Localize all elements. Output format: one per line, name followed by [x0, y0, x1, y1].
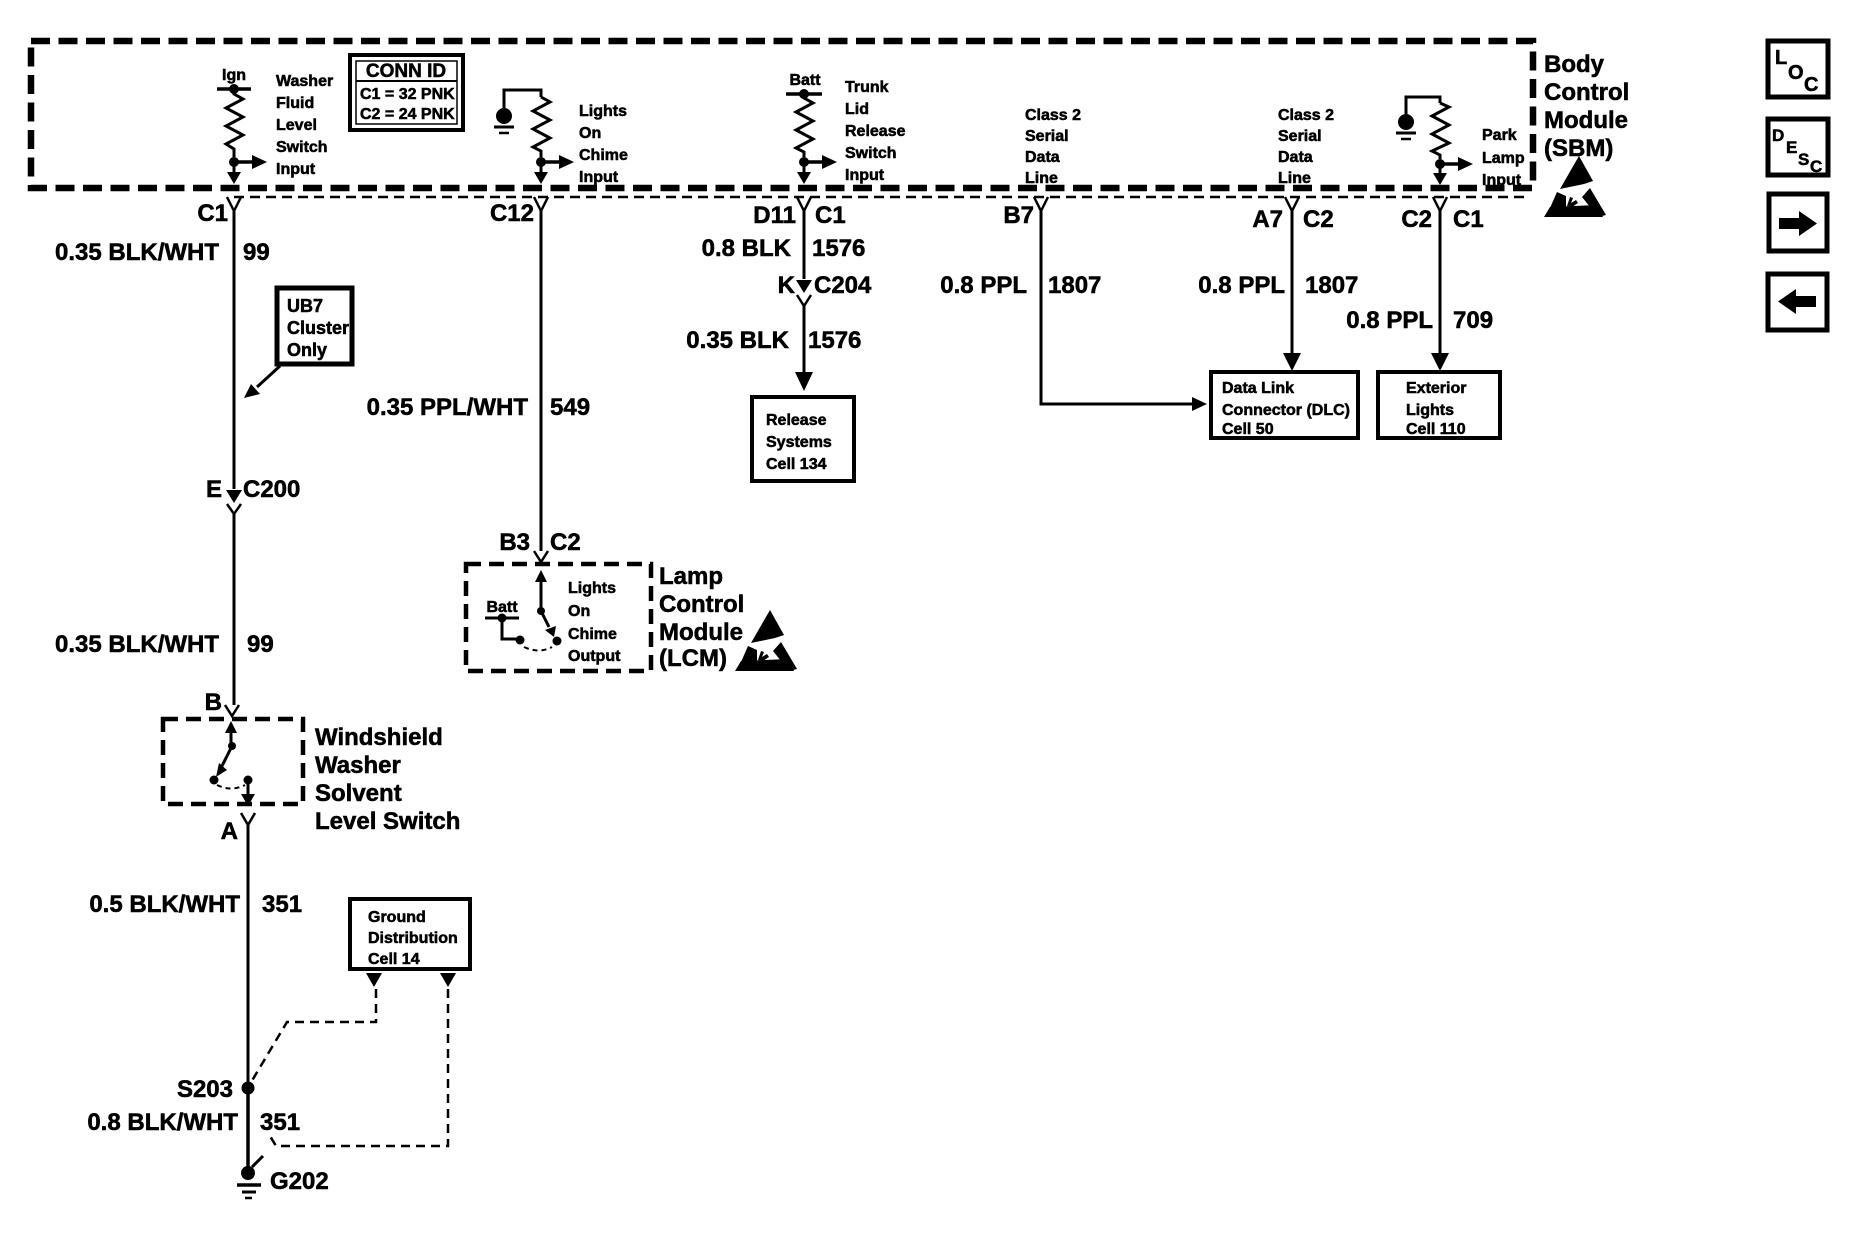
resistor (Trunk Lid Release Switch Input) — [796, 94, 813, 157]
wire 1576 segment (C204 to Release Systems) — [795, 306, 813, 391]
pin A7 C2 connector — [1252, 197, 1333, 233]
label 0.5 BLK/WHT 351 — [89, 891, 302, 918]
dashed reference route to G202 — [270, 989, 448, 1146]
svg-text:Exterior: Exterior — [1406, 380, 1466, 397]
svg-text:0.8 PPL: 0.8 PPL — [1198, 272, 1285, 299]
label 0.8 PPL 1807 (A7) — [1198, 272, 1358, 299]
node at chime resistor output — [536, 157, 546, 167]
svg-text:0.35 BLK/WHT: 0.35 BLK/WHT — [55, 631, 219, 658]
wire 1807 segment (A7 to DLC) — [1283, 211, 1301, 371]
svg-text:Class 2: Class 2 — [1278, 107, 1334, 124]
label 0.35 BLK/WHT 99 (lower) — [55, 631, 274, 658]
splice S203 — [177, 1076, 255, 1103]
Body Control Module (SBM) dashed outline — [31, 41, 1533, 188]
Lamp Control Module dashed box — [466, 564, 651, 671]
wire to pin C2 with down arrow — [1433, 164, 1447, 185]
svg-text:Lights: Lights — [1406, 402, 1454, 419]
wire 99 segment (BCM to C200) — [233, 211, 236, 489]
svg-text:1576: 1576 — [808, 327, 861, 354]
svg-text:Distribution: Distribution — [368, 930, 458, 947]
svg-text:Data: Data — [1278, 149, 1313, 166]
next-page arrow button — [1769, 194, 1827, 251]
svg-text:D11: D11 — [753, 202, 796, 229]
svg-text:C: C — [1804, 74, 1818, 96]
label Class 2 Serial Data Line (pin B7) — [1025, 107, 1081, 187]
svg-text:Park: Park — [1482, 127, 1517, 144]
svg-text:Chime: Chime — [579, 147, 628, 164]
ground distribution pointer triangle right — [440, 973, 456, 987]
svg-text:B7: B7 — [1003, 202, 1034, 229]
svg-text:Class 2: Class 2 — [1025, 107, 1081, 124]
BCM connector face dashed line — [234, 196, 1530, 199]
pin D11 C1 connector — [753, 197, 845, 229]
terminal Batt (trunk lid release) — [786, 72, 822, 99]
resistor (Lights On Chime Input) — [533, 97, 550, 157]
internal arrow right (trunk lid input) — [804, 155, 837, 169]
Windshield Washer Solvent Level Switch dashed box — [163, 719, 303, 804]
LCM terminal Batt — [485, 599, 525, 645]
svg-text:1576: 1576 — [812, 235, 865, 262]
pin B3 C2 of LCM — [499, 529, 580, 562]
svg-text:Data Link: Data Link — [1222, 380, 1294, 397]
svg-text:A7: A7 — [1252, 206, 1283, 233]
wire to pin C12 with down arrow — [534, 162, 548, 184]
wire 351 segment (switch to S203) — [247, 825, 250, 1087]
svg-text:Connector (DLC): Connector (DLC) — [1222, 402, 1350, 419]
switch movable arm — [210, 746, 233, 785]
svg-text:Switch: Switch — [845, 145, 897, 162]
node at trunk resistor output — [799, 157, 809, 167]
UB7 pointer arrow — [244, 366, 280, 398]
terminal Ign — [217, 67, 251, 94]
svg-text:Ign: Ign — [222, 67, 246, 84]
svg-text:C1: C1 — [1453, 206, 1484, 233]
ESD warning symbol pair (LCM) — [735, 610, 797, 671]
label Lights On Chime Output — [568, 580, 621, 665]
svg-text:C1 = 32 PNK: C1 = 32 PNK — [360, 86, 455, 103]
svg-text:Lid: Lid — [845, 101, 869, 118]
svg-text:(LCM): (LCM) — [659, 645, 727, 672]
svg-text:Module: Module — [1544, 107, 1628, 134]
svg-text:S: S — [1798, 150, 1809, 169]
Ground Distribution Cell 14 note box — [350, 899, 470, 969]
svg-text:On: On — [568, 603, 590, 620]
svg-text:Fluid: Fluid — [276, 95, 314, 112]
label Lights On Chime Input — [579, 103, 628, 186]
svg-text:Lights: Lights — [579, 103, 627, 120]
label Park Lamp Input — [1482, 127, 1525, 189]
svg-text:Input: Input — [845, 167, 885, 184]
previous-page arrow button — [1768, 274, 1827, 330]
svg-text:Module: Module — [659, 619, 743, 646]
svg-text:Release: Release — [766, 412, 827, 429]
svg-text:B: B — [205, 689, 222, 716]
svg-text:Trunk: Trunk — [845, 79, 889, 96]
svg-text:E: E — [206, 476, 222, 503]
svg-text:E: E — [1786, 138, 1797, 157]
LCM switch movable arm — [541, 611, 562, 646]
switch contact to A with down arrow — [241, 776, 255, 807]
svg-text:99: 99 — [243, 239, 270, 266]
label Class 2 Serial Data Line (pin A7) — [1278, 107, 1334, 187]
svg-text:C: C — [1810, 157, 1822, 176]
svg-text:D: D — [1772, 126, 1784, 145]
DESC button — [1768, 119, 1828, 176]
wire 1807 segment (B7 to DLC) — [1041, 211, 1207, 411]
svg-text:99: 99 — [247, 631, 274, 658]
CONN ID table — [350, 55, 463, 130]
svg-text:Ground: Ground — [368, 909, 426, 926]
label 0.35 PPL/WHT 549 — [367, 394, 590, 421]
svg-text:Lamp: Lamp — [659, 563, 723, 590]
ground symbol (park lamp pull-down) — [1396, 97, 1440, 139]
svg-text:C12: C12 — [490, 200, 534, 227]
wire to pin D11 with down arrow — [797, 162, 811, 184]
pin C2 C1 connector — [1401, 197, 1483, 233]
svg-text:0.8 PPL: 0.8 PPL — [1346, 307, 1433, 334]
ground G202 — [237, 1088, 329, 1198]
node at park lamp resistor output — [1435, 159, 1445, 169]
svg-text:1807: 1807 — [1048, 272, 1101, 299]
svg-text:C2: C2 — [1303, 206, 1334, 233]
svg-text:Control: Control — [659, 591, 744, 618]
label 0.8 PPL 709 — [1346, 307, 1493, 334]
svg-text:UB7: UB7 — [287, 296, 323, 316]
svg-text:Input: Input — [276, 161, 316, 178]
svg-text:549: 549 — [550, 394, 590, 421]
LOC button — [1768, 41, 1828, 97]
label 0.35 BLK/WHT 99 — [55, 239, 270, 266]
svg-text:CONN ID: CONN ID — [366, 61, 446, 82]
LCM output contact arrow to B3 — [535, 570, 547, 615]
svg-text:Control: Control — [1544, 79, 1629, 106]
pin B7 connector — [1003, 197, 1048, 229]
switch contact arrow to B — [225, 721, 237, 750]
svg-text:Level Switch: Level Switch — [315, 808, 460, 835]
title Body Control Module (SBM) — [1544, 51, 1629, 162]
svg-text:351: 351 — [262, 891, 302, 918]
ground symbol (lights on chime pull-down) — [494, 90, 541, 133]
label 0.8 PPL 1807 (B7) — [940, 272, 1101, 299]
svg-text:Solvent: Solvent — [315, 780, 402, 807]
svg-text:Batt: Batt — [486, 599, 518, 616]
svg-text:Lamp: Lamp — [1482, 150, 1525, 167]
svg-text:351: 351 — [260, 1109, 300, 1136]
svg-text:Cell 50: Cell 50 — [1222, 421, 1274, 438]
UB7 Cluster Only note box — [277, 288, 352, 364]
ground distribution pointer triangle left — [366, 973, 382, 987]
label 0.8 BLK 1576 — [702, 235, 866, 262]
svg-text:Level: Level — [276, 117, 317, 134]
wire 99 segment (C200 to switch) — [233, 514, 236, 705]
svg-text:G202: G202 — [270, 1168, 329, 1195]
label Washer Fluid Level Switch Input — [276, 73, 333, 178]
label 0.35 BLK 1576 — [686, 327, 861, 354]
svg-text:C200: C200 — [243, 476, 300, 503]
svg-text:Input: Input — [1482, 172, 1522, 189]
svg-text:Line: Line — [1025, 170, 1058, 187]
label Windshield Washer Solvent Level Switch — [315, 724, 460, 835]
svg-text:709: 709 — [1453, 307, 1493, 334]
inline connector C204 pin K — [778, 272, 872, 306]
svg-text:Chime: Chime — [568, 626, 617, 643]
svg-text:Cluster: Cluster — [287, 318, 349, 338]
svg-text:On: On — [579, 125, 601, 142]
label Trunk Lid Release Switch Input — [845, 79, 906, 184]
wire to pin C1 with down arrow — [227, 162, 241, 184]
svg-text:Lights: Lights — [568, 580, 616, 597]
inline connector C200 pin E — [206, 476, 300, 514]
svg-text:S203: S203 — [177, 1076, 233, 1103]
svg-text:C2: C2 — [1401, 206, 1432, 233]
resistor (Washer Fluid Level Switch Input) — [226, 89, 243, 157]
svg-text:C1: C1 — [197, 200, 228, 227]
svg-text:Cell 134: Cell 134 — [766, 456, 827, 473]
svg-text:Systems: Systems — [766, 434, 832, 451]
svg-text:0.8 BLK/WHT: 0.8 BLK/WHT — [87, 1109, 238, 1136]
svg-text:0.35 BLK: 0.35 BLK — [686, 327, 789, 354]
Data Link Connector (DLC) Cell 50 box — [1211, 372, 1358, 438]
wire 709 segment (C2 to Exterior Lights) — [1431, 211, 1449, 371]
dashed reference route to S203 — [250, 989, 376, 1084]
svg-text:L: L — [1775, 47, 1787, 69]
svg-text:Release: Release — [845, 123, 906, 140]
svg-text:Output: Output — [568, 648, 621, 665]
svg-text:1807: 1807 — [1305, 272, 1358, 299]
wire 549 segment — [540, 211, 543, 551]
switch travel dashed arc — [217, 785, 245, 789]
svg-text:Line: Line — [1278, 170, 1311, 187]
LCM switch travel dashed arc — [524, 647, 552, 651]
pin C12 connector — [490, 197, 548, 227]
resistor (Park Lamp Input) — [1432, 103, 1449, 159]
svg-text:O: O — [1788, 62, 1804, 84]
svg-text:Cell 110: Cell 110 — [1406, 421, 1466, 438]
svg-text:0.8 BLK: 0.8 BLK — [702, 235, 792, 262]
pin B of washer switch — [205, 689, 239, 716]
label 0.8 BLK/WHT 351 — [87, 1109, 300, 1136]
svg-text:Data: Data — [1025, 149, 1060, 166]
svg-text:Washer: Washer — [315, 752, 401, 779]
svg-text:Cell 14: Cell 14 — [368, 951, 420, 968]
svg-text:C2: C2 — [550, 529, 581, 556]
svg-text:Only: Only — [287, 340, 327, 360]
svg-text:Serial: Serial — [1278, 128, 1322, 145]
ESD warning symbol pair (SBM) — [1544, 156, 1606, 217]
svg-text:C1: C1 — [815, 202, 846, 229]
svg-text:Input: Input — [579, 169, 619, 186]
internal arrow right (park lamp input) — [1440, 157, 1473, 171]
node at washer resistor output — [229, 157, 239, 167]
svg-text:0.8 PPL: 0.8 PPL — [940, 272, 1027, 299]
wire 1576 segment (BCM to C204) — [803, 211, 806, 279]
svg-text:Batt: Batt — [789, 72, 821, 89]
svg-text:C2 = 24 PNK: C2 = 24 PNK — [360, 106, 455, 123]
svg-text:Switch: Switch — [276, 139, 328, 156]
svg-text:0.35 BLK/WHT: 0.35 BLK/WHT — [55, 239, 219, 266]
svg-text:A: A — [221, 818, 238, 845]
Exterior Lights Cell 110 box — [1378, 372, 1500, 438]
svg-text:K: K — [778, 272, 796, 299]
svg-text:0.35 PPL/WHT: 0.35 PPL/WHT — [367, 394, 529, 421]
svg-text:Body: Body — [1544, 51, 1605, 78]
Release Systems Cell 134 box — [752, 397, 854, 481]
svg-text:B3: B3 — [499, 529, 530, 556]
pin A of washer switch — [221, 813, 255, 845]
svg-text:Serial: Serial — [1025, 128, 1069, 145]
pin C1 connector — [197, 197, 241, 227]
svg-text:Windshield: Windshield — [315, 724, 443, 751]
internal arrow right (chime input) — [541, 155, 574, 169]
svg-text:0.5 BLK/WHT: 0.5 BLK/WHT — [89, 891, 240, 918]
svg-text:C204: C204 — [814, 272, 872, 299]
svg-text:Washer: Washer — [276, 73, 333, 90]
title Lamp Control Module (LCM) — [659, 563, 744, 672]
internal arrow right (washer input) — [234, 155, 267, 169]
